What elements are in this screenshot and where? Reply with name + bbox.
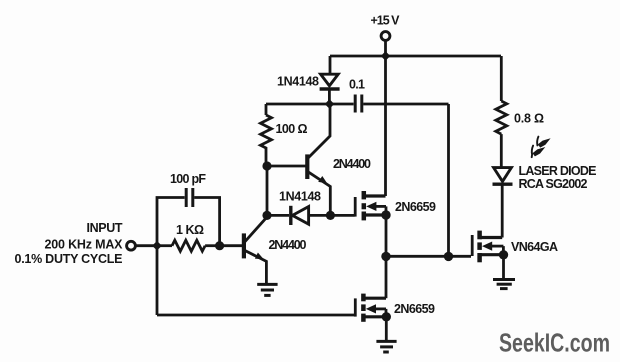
junction node M3 source: [499, 250, 508, 259]
light emission arrows: [532, 137, 551, 158]
svg-text:+15 V: +15 V: [371, 14, 401, 28]
junction node totem mid: [381, 252, 390, 261]
mosfet M3 VN64GA: [472, 231, 503, 263]
wire mid node down to M2 drain: [385, 256, 388, 298]
svg-text:0.8 Ω: 0.8 Ω: [514, 112, 544, 126]
laser diode D3: [493, 168, 513, 185]
svg-text:200 KHz MAX: 200 KHz MAX: [45, 237, 124, 251]
svg-text:1N4148: 1N4148: [277, 74, 319, 88]
resistor R2 1 Kohm: [157, 240, 220, 251]
svg-text:VN64GA: VN64GA: [511, 240, 558, 254]
svg-text:SeekIC.com: SeekIC.com: [499, 328, 610, 358]
svg-text:1N4148: 1N4148: [279, 189, 321, 203]
wire M2 source to ground: [385, 317, 388, 341]
wire x448 down: [447, 104, 450, 256]
svg-text:100 pF: 100 pF: [170, 172, 206, 186]
svg-text:0.1% DUTY CYCLE: 0.1% DUTY CYCLE: [15, 252, 123, 266]
svg-text:LASER DIODE: LASER DIODE: [519, 164, 597, 178]
svg-text:2N6659: 2N6659: [395, 200, 436, 214]
svg-text:2N4400: 2N4400: [269, 238, 307, 252]
wire M1 source to mid node: [385, 215, 388, 256]
junction supply node: [381, 51, 391, 61]
wire bottom run to M2 gate: [157, 314, 355, 317]
input terminal: [127, 241, 136, 250]
junction node M1 source: [381, 210, 390, 219]
wire laser diode to M3 drain: [501, 184, 504, 237]
svg-text:1 KΩ: 1 KΩ: [176, 223, 204, 237]
wire x267 down to D2 node: [266, 166, 269, 215]
capacitor C2 100 pF: [186, 188, 193, 207]
diode D1 1N4148 (vertical): [320, 74, 340, 104]
ground (below Q2): [257, 284, 277, 295]
capacitor C1 0.1: [355, 95, 448, 113]
wire terminal to rail: [384, 41, 387, 56]
wire 100pF branch up-left: [157, 198, 185, 246]
wire gate lead M1: [330, 214, 354, 217]
junction node R2/Q2 base: [215, 241, 224, 250]
svg-text:2N4400: 2N4400: [333, 157, 371, 171]
wire main rail x385.5: [384, 56, 387, 196]
power terminal +15V: [381, 32, 390, 41]
transistor Q2 2N4400: [244, 217, 267, 284]
resistor R1 100 ohm: [261, 104, 272, 166]
wire y104 left: [266, 103, 354, 106]
resistor R3 0.8 ohm: [496, 101, 507, 167]
mosfet M1 2N6659 (top): [355, 191, 386, 220]
junction node Q2 collector / D2: [262, 211, 271, 220]
junction node D1/C1: [325, 99, 335, 109]
svg-text:INPUT: INPUT: [87, 221, 123, 235]
transistor Q1 2N4400: [307, 104, 330, 215]
junction node Q1 emitter / M1 gate: [326, 211, 335, 220]
wire base lead Q1: [267, 165, 306, 168]
wire Q2 base lead: [220, 244, 242, 247]
junction input node: [152, 241, 162, 251]
svg-text:0.1: 0.1: [349, 78, 365, 92]
wire M3 source to ground: [502, 255, 505, 279]
wire input to node: [136, 244, 157, 247]
svg-text:2N6659: 2N6659: [394, 302, 435, 316]
wire input node down: [156, 246, 159, 315]
wire rail down to D1: [329, 56, 332, 74]
ground (below M3): [493, 280, 515, 289]
junction node M2 source: [382, 312, 391, 321]
junction node R1/Q1 base: [262, 161, 271, 170]
svg-text:100 Ω: 100 Ω: [276, 122, 308, 136]
wire top rail y56: [330, 55, 501, 58]
junction node C1 feed: [444, 252, 453, 261]
svg-text:RCA SG2002: RCA SG2002: [519, 177, 588, 191]
mosfet M2 2N6659 (bottom): [355, 294, 386, 322]
wire right branch down from rail: [500, 56, 503, 101]
wire mid node to VN64GA gate: [386, 255, 471, 258]
wire 100pF branch right-down: [194, 198, 219, 246]
diode D2 1N4148 (horizontal): [267, 206, 330, 225]
ground (below M2): [376, 341, 396, 352]
